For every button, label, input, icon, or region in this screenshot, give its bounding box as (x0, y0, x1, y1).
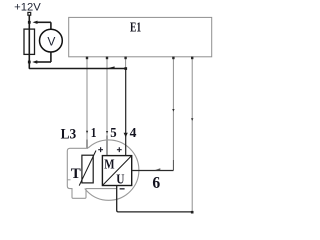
svg-text:4: 4 (130, 126, 137, 141)
svg-text:M: M (104, 157, 114, 172)
svg-text:L3: L3 (61, 127, 77, 143)
svg-text:T: T (71, 166, 81, 182)
svg-text:6: 6 (152, 173, 160, 192)
svg-text:V: V (47, 34, 55, 48)
svg-text:U: U (116, 171, 124, 186)
svg-text:+12V: +12V (14, 2, 41, 14)
svg-text:E1: E1 (130, 21, 141, 36)
svg-text:1: 1 (91, 126, 97, 141)
svg-text:5: 5 (110, 126, 116, 141)
